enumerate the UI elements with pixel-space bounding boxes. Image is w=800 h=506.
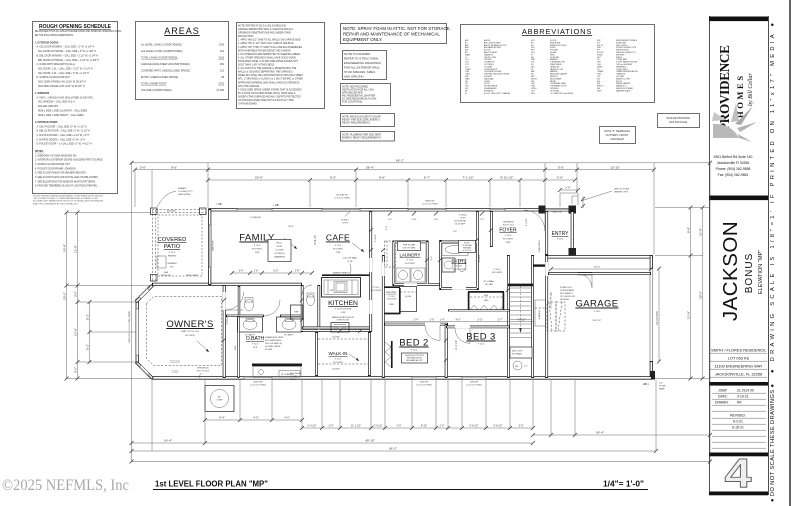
garage overhead door opening xyxy=(650,269,653,362)
areas box xyxy=(136,22,229,100)
svg-text:TOTAL UNDER ROOF: TOTAL UNDER ROOF xyxy=(141,83,167,86)
SECTION: room labels xyxy=(129,187,666,391)
right dim line inner xyxy=(686,206,692,381)
svg-text:by Bill Cellar: by Bill Cellar xyxy=(748,73,754,106)
SECTION: header boxes xyxy=(33,22,700,206)
cafe-kitchen east wall xyxy=(369,211,372,332)
room label foyer xyxy=(499,228,517,245)
svg-text:(7'-10 1/2" HDR): (7'-10 1/2" HDR) xyxy=(334,198,350,200)
owners tray ceiling dashed xyxy=(147,297,222,366)
svg-text:9' CLG: 9' CLG xyxy=(172,371,179,373)
svg-text:SIDE x SIDE x SIDE (3x) WIDTH: SIDE x SIDE x SIDE (3x) WIDTH – CALL SIZ… xyxy=(38,109,88,112)
svg-text:8'-10": 8'-10" xyxy=(421,425,427,428)
svg-text:FLR TO CLG: FLR TO CLG xyxy=(503,224,515,226)
wc door arc xyxy=(264,300,280,316)
svg-text:66'-2": 66'-2" xyxy=(396,159,404,163)
svg-text:2741: 2741 xyxy=(218,83,224,86)
svg-text:@ 36": @ 36" xyxy=(347,261,353,263)
svg-text:1. APPLY MIN 1/2" GWB TO ALL W: 1. APPLY MIN 1/2" GWB TO ALL WALLS ON GA… xyxy=(238,39,301,42)
bed2-bed3 wall xyxy=(445,324,448,378)
svg-text:DBL DOOR OUTSWING – CALL SIZE: DBL DOOR OUTSWING – CALL SIZE + 2 1/2" W… xyxy=(38,59,100,62)
svg-text:4'-6": 4'-6" xyxy=(253,416,258,420)
svg-text:16080 SGD: 16080 SGD xyxy=(213,240,215,251)
svg-text:6-2-21: 6-2-21 xyxy=(733,420,743,424)
svg-text:DRAWN:: DRAWN: xyxy=(715,401,729,405)
top black bar xyxy=(709,17,768,22)
svg-text:FL: FL xyxy=(465,93,467,95)
svg-text:RANGE W/ MICROHOOD: RANGE W/ MICROHOOD xyxy=(332,316,355,319)
svg-text:8'-4" CLG: 8'-4" CLG xyxy=(171,361,180,363)
entry stone column left xyxy=(539,206,546,214)
svg-text:REPAIR AND MAINTENANCE OF MECH: REPAIR AND MAINTENANCE OF MECHANICAL xyxy=(343,32,440,37)
shower note xyxy=(265,336,284,351)
svg-text:@ 42" AFF: @ 42" AFF xyxy=(455,223,466,226)
svg-text:4: 4 xyxy=(725,450,752,496)
svg-text:8080 FXD: 8080 FXD xyxy=(425,201,435,203)
svg-text:11'-4 1/2": 11'-4 1/2" xyxy=(455,340,458,350)
svg-text:⊥ HB: ⊥ HB xyxy=(215,202,222,206)
svg-text:NOTE: 6" SEAMLESS: NOTE: 6" SEAMLESS xyxy=(604,129,630,133)
svg-text:CRN: CRN xyxy=(336,252,341,254)
svg-text:BENCH: BENCH xyxy=(290,379,298,381)
svg-text:BED 3: BED 3 xyxy=(466,332,495,343)
svg-text:3. APPLY 5/8" TYPE "X" GWB TO: 3. APPLY 5/8" TYPE "X" GWB TO ALL CEILIN… xyxy=(238,46,302,49)
svg-text:3'-0": 3'-0" xyxy=(73,367,77,373)
svg-text:3-19-21: 3-19-21 xyxy=(737,395,749,399)
window cafe 8080 FXD xyxy=(408,208,446,211)
entry bump small dims xyxy=(558,186,585,208)
svg-text:M.BENCH: M.BENCH xyxy=(539,310,541,319)
svg-text:KITCHEN: KITCHEN xyxy=(328,300,358,307)
svg-text:9'-6": 9'-6" xyxy=(171,165,177,169)
svg-text:GUTTERS: FRONT: GUTTERS: FRONT xyxy=(606,133,629,137)
hdr note box xyxy=(459,241,476,253)
foyer west wall xyxy=(490,211,493,247)
svg-text:6" MULL: 6" MULL xyxy=(341,220,350,222)
svg-text:29'-0": 29'-0" xyxy=(698,291,702,299)
hall west openings xyxy=(369,258,372,272)
svg-text:ENTRY (UNENCLOSED SPACE): ENTRY (UNENCLOSED SPACE) xyxy=(141,76,178,79)
svg-text:2126: 2126 xyxy=(218,57,224,60)
svg-text:4'-10": 4'-10" xyxy=(411,219,417,221)
svg-text:9' CLG: 9' CLG xyxy=(335,245,342,247)
svg-text:8'-4 1/2": 8'-4 1/2" xyxy=(479,254,481,262)
rough opening schedule body text xyxy=(35,30,122,188)
svg-text:SGL DOOR / 2 SL – CALL SIZE +: SGL DOOR / 2 SL – CALL SIZE + 5" W, +2 1… xyxy=(38,72,89,75)
svg-text:6-15-21: 6-15-21 xyxy=(732,426,744,430)
svg-text:3080 OPNG: 3080 OPNG xyxy=(539,240,541,252)
svg-text:(7'-10 1/2" HDR): (7'-10 1/2" HDR) xyxy=(250,385,266,387)
room label bed2 xyxy=(399,338,428,352)
owners top wall / patio bottom wall xyxy=(152,283,302,286)
svg-text:2'-4 1/2": 2'-4 1/2" xyxy=(373,425,382,428)
owners bay left wall xyxy=(136,302,139,363)
laundry walls xyxy=(393,241,440,287)
svg-text:SHALL BE COORDINATED BY THE CO: SHALL BE COORDINATED BY THE CONTRACTOR. xyxy=(33,202,78,205)
soft close cabinet box xyxy=(268,240,291,262)
svg-text:2x6 LOW WALL: 2x6 LOW WALL xyxy=(343,257,359,260)
svg-text:GARAGE SEPARATION WALLS, CEILI: GARAGE SEPARATION WALLS, CEILINGS AND AL… xyxy=(238,28,294,31)
svg-text:6'-0": 6'-0" xyxy=(386,226,388,231)
svg-text:5'-8 1/2": 5'-8 1/2" xyxy=(493,425,502,428)
garage service door gap xyxy=(578,272,592,275)
svg-text:(3) 3080 SH: (3) 3080 SH xyxy=(336,195,348,197)
svg-text:9' CLG: 9' CLG xyxy=(494,269,501,271)
svg-text:66'-2": 66'-2" xyxy=(389,447,397,451)
svg-text:JOB#:: JOB#: xyxy=(718,389,727,393)
svg-text:RK: RK xyxy=(737,401,742,405)
svg-text:454: 454 xyxy=(220,63,225,66)
sheet right border line xyxy=(789,0,791,506)
garage attic stair dashed xyxy=(547,302,556,331)
laundry appliances xyxy=(396,268,410,282)
svg-text:3068/1 SH: 3068/1 SH xyxy=(552,212,562,214)
svg-text:(2) R&S: (2) R&S xyxy=(332,337,340,339)
svg-text:5020 FXD: 5020 FXD xyxy=(253,382,263,384)
fourth black bar xyxy=(709,453,768,457)
svg-text:7. SEE ELEVATIONS FOR WINDOW: 7. SEE ELEVATIONS FOR WINDOW MUNTIN PATT… xyxy=(35,180,96,183)
obath vanity 1 xyxy=(238,317,263,332)
svg-text:27,469: 27,469 xyxy=(216,89,224,92)
svg-text:341: 341 xyxy=(220,50,225,53)
owners bay upper diagonal wall xyxy=(136,285,153,302)
svg-text:VOLUME (CONDITIONED): VOLUME (CONDITIONED) xyxy=(141,89,172,92)
entry front door 3068/1 SH xyxy=(545,208,569,211)
svg-text:COVERED: COVERED xyxy=(158,237,187,243)
svg-text:APPROVED MATERIAL AND SHALL HA: APPROVED MATERIAL AND SHALL HAVE NO OPEN… xyxy=(238,81,300,84)
svg-text:16'-10" OHD: 16'-10" OHD xyxy=(656,311,659,325)
laundry door gap xyxy=(404,283,417,286)
svg-text:7. ENCLOSED SPACE UNDER STAIRS: 7. ENCLOSED SPACE UNDER STAIRS THAT IS A… xyxy=(238,88,302,91)
svg-text:4901 Belfort Rd Suite 140: 4901 Belfort Rd Suite 140 xyxy=(714,155,753,159)
svg-text:113: 113 xyxy=(220,70,225,73)
window bed2 3060 SH xyxy=(412,377,436,380)
svg-text:3'-6": 3'-6" xyxy=(329,425,334,428)
svg-text:FLOORTE: FLOORTE xyxy=(405,263,415,265)
svg-text:REFER TO STRUCTURAL: REFER TO STRUCTURAL xyxy=(344,57,379,61)
top extension lines xyxy=(132,162,711,462)
svg-text:CLOTHES ROD and SHELF: CLOTHES ROD and SHELF xyxy=(550,93,574,95)
svg-text:BONUS: BONUS xyxy=(744,253,755,294)
stair east wall xyxy=(531,255,534,378)
svg-text:WALK-IN: WALK-IN xyxy=(329,351,348,356)
foyer-entry wall xyxy=(545,211,548,255)
svg-text:SGL WINDOW – CALL SIZE W & H: SGL WINDOW – CALL SIZE W & H xyxy=(38,101,75,104)
svg-text:PANTRY: PANTRY xyxy=(386,291,397,295)
svg-text:ENERGY READY REQUIREMENTS.: ENERGY READY REQUIREMENTS. xyxy=(342,137,382,140)
svg-text:3'-7": 3'-7" xyxy=(498,318,503,321)
svg-text:ENGINEERING DRAWINGS: ENGINEERING DRAWINGS xyxy=(344,61,381,65)
bed3 door gap and arc xyxy=(455,326,470,329)
svg-text:GYPSUM BOARD.: GYPSUM BOARD. xyxy=(238,103,258,106)
svg-text:2'-1": 2'-1" xyxy=(524,366,528,368)
svg-text:FOR LOCATIONS): FOR LOCATIONS) xyxy=(342,101,362,104)
svg-text:2'-4 1/2": 2'-4 1/2" xyxy=(307,425,316,428)
svg-text:GAS: GAS xyxy=(164,271,169,274)
svg-text:COVERED PATIO (UNENCLOSED SPAC: COVERED PATIO (UNENCLOSED SPACE) xyxy=(141,70,190,73)
svg-text:AND REAR: AND REAR xyxy=(610,137,624,141)
svg-text:SGD 12080 3-PANEL=141 11/16": SGD 12080 3-PANEL=141 11/16" W, 96 3/4" … xyxy=(38,81,86,84)
top dimension line segments xyxy=(206,176,577,182)
svg-text:3060 SH: 3060 SH xyxy=(470,382,479,384)
svg-text:WITH HABITABLE ROOMS ABOVE THE: WITH HABITABLE ROOMS ABOVE THE GARAGE. xyxy=(238,49,291,52)
kitchen low wall xyxy=(322,274,371,276)
wc toilet xyxy=(307,295,315,306)
svg-text:COLUMN (TYP): COLUMN (TYP) xyxy=(178,191,193,193)
svg-text:2'-4 1/2": 2'-4 1/2" xyxy=(375,234,377,242)
svg-text:SLOPED CAP AT: SLOPED CAP AT xyxy=(265,345,281,348)
abbreviations column 1 xyxy=(465,39,511,95)
svg-text:B. DBL DOOR INSWING – CALL SIZ: B. DBL DOOR INSWING – CALL SIZE + 2 1/2"… xyxy=(37,54,99,57)
svg-text:GARAGE (ENCLOSED UNCONDITIONED: GARAGE (ENCLOSED UNCONDITIONED) xyxy=(141,63,190,66)
hall-bed2 top wall xyxy=(384,323,448,326)
svg-text:13'-10": 13'-10" xyxy=(610,165,620,169)
svg-text:COMP: COMP xyxy=(216,400,223,402)
obath shower floor xyxy=(253,367,301,378)
svg-text:2'-8": 2'-8" xyxy=(434,219,439,221)
svg-text:42" AFF: 42" AFF xyxy=(265,348,273,351)
svg-text:21'-8": 21'-8" xyxy=(698,228,702,236)
svg-text:UTILITY SINK: UTILITY SINK xyxy=(402,248,416,250)
bath2 tub xyxy=(442,244,468,256)
svg-text:NOTE: SPRAY FOAM IN ATTIC. NO: NOTE: SPRAY FOAM IN ATTIC. NOT FOR STORA… xyxy=(343,26,451,31)
svg-text:SGL DOOR / 1 SL – CALL SIZE +: SGL DOOR / 1 SL – CALL SIZE + 3 1/2" W, … xyxy=(38,68,93,71)
svg-text:⊥ HB: ⊥ HB xyxy=(272,203,279,207)
svg-text:GLS SHWR ENCL: GLS SHWR ENCL xyxy=(265,340,282,342)
svg-text:KIT.: KIT. xyxy=(170,267,174,269)
bed3 closet bifold zigzag xyxy=(469,305,503,311)
right dim line outer 29-0 xyxy=(698,206,704,381)
covered patio dashed outline xyxy=(152,210,206,282)
stair top wall xyxy=(508,284,533,287)
svg-text:READY REQUIREMENTS.: READY REQUIREMENTS. xyxy=(342,122,371,125)
svg-text:FLOORTE: FLOORTE xyxy=(252,249,262,251)
svg-text:BE ADVISED THAT ALL ROUGH FRAM: BE ADVISED THAT ALL ROUGH FRAME DOOR AND… xyxy=(35,30,122,33)
svg-text:9' CLG: 9' CLG xyxy=(254,245,261,247)
right extension lines xyxy=(655,208,710,379)
room label cafe xyxy=(326,233,350,255)
rough opening schedule disclaimer below box xyxy=(33,195,104,206)
svg-text:FLOORTE: FLOORTE xyxy=(371,290,382,292)
svg-text:W/ DRAIN: W/ DRAIN xyxy=(512,353,522,356)
job info rows xyxy=(712,389,766,449)
svg-text:SUMMER: SUMMER xyxy=(167,263,177,265)
svg-text:4. POCKET DOOR FRAME: JOHNSON: 4. POCKET DOOR FRAME: JOHNSON xyxy=(35,167,76,170)
svg-text:DRAWERS: DRAWERS xyxy=(274,256,286,259)
cafe leader arrow xyxy=(352,243,364,252)
svg-text:STUB-OUT: STUB-OUT xyxy=(161,275,172,277)
owners bay lower diagonal wall xyxy=(136,362,153,379)
svg-text:1'-4": 1'-4" xyxy=(440,318,445,321)
walkin closet walls xyxy=(317,332,370,376)
svg-text:STONE: STONE xyxy=(659,386,666,388)
svg-text:2. INTERIOR & EXTERIOR DOORS:: 2. INTERIOR & EXTERIOR DOORS: BUILDERS F… xyxy=(35,160,103,162)
svg-text:24'-4": 24'-4" xyxy=(596,431,604,435)
svg-text:4'-0": 4'-0" xyxy=(284,416,289,420)
svg-text:6. ALL DUCTS IN THE GARAGE or: 6. ALL DUCTS IN THE GARAGE or PENETRATIN… xyxy=(238,67,297,70)
svg-text:SCALED PROPANE: SCALED PROPANE xyxy=(666,116,690,120)
svg-text:SMITH / FLORES RESIDENCE: SMITH / FLORES RESIDENCE xyxy=(711,348,766,353)
scaled propane gas package box xyxy=(658,114,700,128)
svg-text:12'-8": 12'-8" xyxy=(73,245,77,253)
abbreviations column 2 xyxy=(531,40,574,95)
svg-text:2nd LEVEL LIVING (CONDITIONED): 2nd LEVEL LIVING (CONDITIONED) xyxy=(141,50,182,53)
svg-text:W/ 4 SHEETS: W/ 4 SHEETS xyxy=(560,293,573,295)
svg-text:GAS PACKAGE: GAS PACKAGE xyxy=(669,120,688,124)
linen closet (6)SH xyxy=(400,287,417,312)
svg-text:REF: REF xyxy=(294,312,299,314)
svg-text:DOORS &: DOORS & xyxy=(274,253,285,255)
svg-text:56'-4": 56'-4" xyxy=(366,165,374,169)
garage west wall xyxy=(545,255,548,378)
svg-text:A. SGL DOOR INSWING – CALL SIZ: A. SGL DOOR INSWING – CALL SIZE + 2" W, … xyxy=(37,46,95,49)
svg-text:3'-5": 3'-5" xyxy=(397,425,402,428)
svg-text:3'-0": 3'-0" xyxy=(73,291,77,297)
svg-text:FRAMELESS TEMP: FRAMELESS TEMP xyxy=(265,336,284,339)
svg-text:NOTE TO FRAMER:: NOTE TO FRAMER: xyxy=(344,52,371,56)
svg-text:SHAKER WRAP'D: SHAKER WRAP'D xyxy=(333,272,350,275)
svg-text:ROLL: ROLL xyxy=(277,243,283,245)
svg-text:4614 NICHE: 4614 NICHE xyxy=(290,373,302,375)
room label garage xyxy=(575,299,618,323)
room label entry xyxy=(552,231,570,241)
window bay lower diagonal 3050 SH xyxy=(139,365,149,375)
bed2 door gap and arc xyxy=(425,323,440,326)
svg-text:5'-8 1/2": 5'-8 1/2" xyxy=(469,425,478,428)
svg-text:JACKSON: JACKSON xyxy=(719,221,742,321)
svg-text:DATE:: DATE: xyxy=(718,395,728,399)
wc-linen walls xyxy=(302,285,371,332)
svg-text:PATIO: PATIO xyxy=(164,244,181,250)
svg-text:LAUNDRY: LAUNDRY xyxy=(400,253,421,258)
svg-text:12" ABV: 12" ABV xyxy=(290,375,298,378)
mud hall wall foyer-garage xyxy=(533,264,546,266)
svg-text:5. SEE FLOOR PLANS FOR HEADER: 5. SEE FLOOR PLANS FOR HEADER HEIGHTS. xyxy=(35,172,86,175)
svg-text:BE THE FOLLOWING DIMENSIONS:: BE THE FOLLOWING DIMENSIONS: xyxy=(35,35,74,37)
svg-text:PAVERS: PAVERS xyxy=(168,255,177,258)
bath2 toilet xyxy=(458,261,466,272)
address block xyxy=(714,155,753,177)
svg-text:3'-0": 3'-0" xyxy=(519,425,524,428)
svg-text:3'-5": 3'-5" xyxy=(478,318,483,321)
svg-text:9' CLG: 9' CLG xyxy=(335,359,342,361)
svg-text:A. SGL PH DOOR – CALL SIZE +2": A. SGL PH DOOR – CALL SIZE +2" W, +2 1/2… xyxy=(37,125,88,128)
owners door opening xyxy=(223,292,226,310)
bottom dim row 1 left xyxy=(203,416,304,422)
svg-text:4014 NICHE: 4014 NICHE xyxy=(454,221,466,223)
obath wc room wall horizontal xyxy=(226,315,302,317)
bottom dim row 40-10 xyxy=(130,439,536,445)
svg-text:DWELLING SHALL BE CONSTRUCTED: DWELLING SHALL BE CONSTRUCTED OF MIN 26G… xyxy=(238,74,304,77)
svg-text:9' CLG: 9' CLG xyxy=(388,296,395,298)
svg-text:9' CLG: 9' CLG xyxy=(594,311,601,313)
svg-text:(TYP): (TYP) xyxy=(460,218,466,220)
svg-text:3. INTERIOR DOORS: 3. INTERIOR DOORS xyxy=(35,122,58,124)
svg-text:MTL, 1" MIN RIGID or CLASS 0 o: MTL, 1" MIN RIGID or CLASS 0 or 1 DUCT B… xyxy=(238,78,303,81)
pre plumb utility sink box xyxy=(398,242,421,251)
title block right border line xyxy=(768,16,770,495)
window owners 5020 FXD xyxy=(244,377,272,380)
room label bath2 xyxy=(451,259,467,272)
bed2 closet zigzag bifold xyxy=(385,342,391,367)
svg-text:ROUGH OPENING DIMENSIONS ARE B: ROUGH OPENING DIMENSIONS ARE BASED ON IN… xyxy=(33,195,104,198)
svg-text:2'-6": 2'-6" xyxy=(565,186,570,190)
svg-text:5'-2": 5'-2" xyxy=(85,314,89,320)
svg-text:9' CLG: 9' CLG xyxy=(456,266,463,268)
svg-text:ENTRY: ENTRY xyxy=(552,231,570,237)
svg-text:2'-6": 2'-6" xyxy=(453,231,458,233)
walkin shelves dashed xyxy=(318,338,368,340)
svg-text:D. SLIDING GLASS DOOR PGT: D. SLIDING GLASS DOOR PGT xyxy=(37,76,71,79)
svg-text:3'-6": 3'-6" xyxy=(239,270,244,273)
top dimension line 66-2 xyxy=(130,159,713,165)
attic stair note xyxy=(560,286,576,301)
svg-text:2'-0": 2'-0" xyxy=(440,425,445,428)
svg-text:CRN: CRN xyxy=(341,312,346,314)
residence info box xyxy=(710,348,767,378)
svg-text:W/D LOOP: W/D LOOP xyxy=(512,351,523,353)
bed3 closet xyxy=(468,292,504,311)
window cafe 3080SH xyxy=(322,208,360,211)
svg-text:NOTES:: NOTES: xyxy=(35,151,44,153)
framed column note xyxy=(178,187,193,196)
svg-text:FLOORTE: FLOORTE xyxy=(333,362,343,364)
garage stone wrap corner xyxy=(650,371,655,380)
svg-text:DW: DW xyxy=(330,290,333,292)
interior tick slashes xyxy=(222,212,510,363)
svg-text:ACCURATE. ANY VARIATIONS IN PR: ACCURATE. ANY VARIATIONS IN PRODUCTS OR … xyxy=(33,200,104,203)
hall east wall xyxy=(382,255,385,378)
svg-text:20'-4 1/2": 20'-4 1/2" xyxy=(593,320,602,322)
svg-text:5. ALL OTHER OPENINGS SHALL HA: 5. ALL OTHER OPENINGS SHALL HAVE SOLID W… xyxy=(238,56,297,59)
kitchen entry arc xyxy=(302,285,312,295)
svg-text:WRAP: WRAP xyxy=(659,388,665,391)
svg-text:(7'-10 1/2" HDR): (7'-10 1/2" HDR) xyxy=(422,204,438,206)
svg-text:EQUIPMENT ONLY.: EQUIPMENT ONLY. xyxy=(343,37,383,42)
svg-text:MULLED GROUPS:: MULLED GROUPS: xyxy=(38,106,59,108)
svg-text:9' CLG: 9' CLG xyxy=(252,344,259,346)
svg-text:4" MULL: 4" MULL xyxy=(459,215,468,217)
garage right wall lower xyxy=(650,361,653,379)
svg-text:6. SEE FLOOR PLANS FOR ACTIVE: 6. SEE FLOOR PLANS FOR ACTIVE LEAF ON DB… xyxy=(35,176,99,179)
bottom dim row garage xyxy=(531,431,712,437)
svg-text:SOFT: SOFT xyxy=(277,246,283,248)
svg-text:● DO NOT SCALE THESE DRAWINGS: ● DO NOT SCALE THESE DRAWINGS ● xyxy=(770,384,776,502)
svg-text:9' CLG FLOORTE: 9' CLG FLOORTE xyxy=(335,309,352,311)
svg-text:9'-6 1/2": 9'-6 1/2" xyxy=(526,218,528,226)
window family (3)3080SH xyxy=(237,208,272,211)
svg-text:STRAP PULL: STRAP PULL xyxy=(560,286,573,289)
svg-text:CRN: CRN xyxy=(506,242,511,244)
svg-text:OF OSB FLOOR: OF OSB FLOOR xyxy=(560,296,576,298)
svg-text:SGL DOOR OUTSWING – CALL SIZE: SGL DOOR OUTSWING – CALL SIZE + 2" W, +1… xyxy=(38,50,96,53)
garage right wall upper xyxy=(650,255,653,269)
pv solar note box xyxy=(341,114,395,127)
svg-text:TRAY TO 9'-8" CLG: TRAY TO 9'-8" CLG xyxy=(181,330,200,333)
SECTION: floor plan walls xyxy=(136,193,655,412)
svg-text:26'-8": 26'-8" xyxy=(288,226,294,228)
svg-text:9' CLG: 9' CLG xyxy=(169,252,176,254)
svg-text:ABBREVIATIONS: ABBREVIATIONS xyxy=(522,27,592,36)
svg-text:CRN: CRN xyxy=(255,252,260,254)
svg-text:PRE PLUMB: PRE PLUMB xyxy=(186,275,198,277)
svg-text:D. BI-PASS DOORS – CALL SIZE +: D. BI-PASS DOORS – CALL SIZE +0" W, +2" … xyxy=(37,138,86,141)
svg-text:(SEE DETAIL): (SEE DETAIL) xyxy=(178,193,191,196)
garage top wall xyxy=(546,255,653,258)
svg-text:B. DBL (2) PH DOOR – CALL SIZE: B. DBL (2) PH DOOR – CALL SIZE +3" W, +2… xyxy=(37,130,91,133)
svg-text:3060 SH: 3060 SH xyxy=(420,382,429,384)
pantry walls xyxy=(384,287,400,314)
